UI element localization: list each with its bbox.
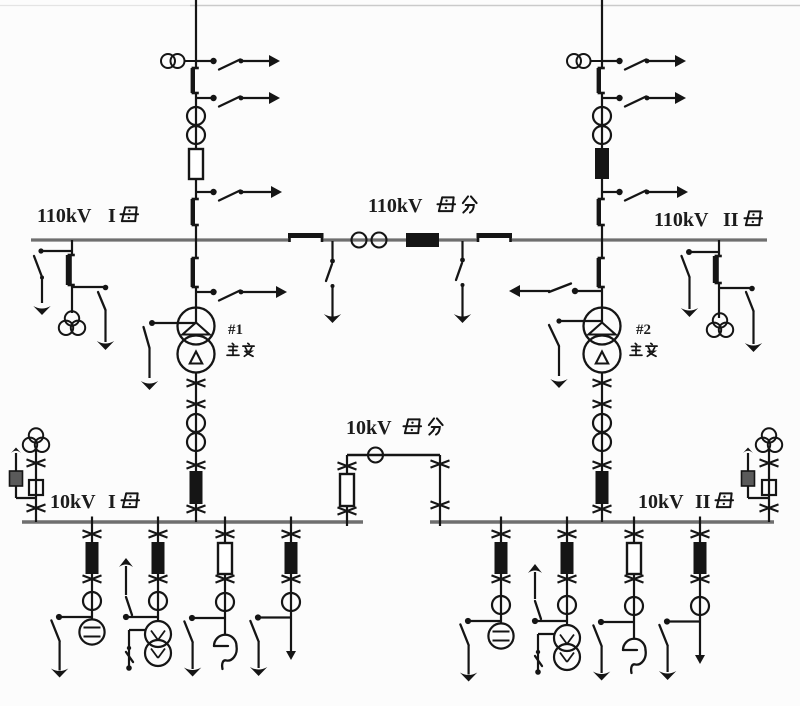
- svg-text:10kV: 10kV: [638, 491, 684, 513]
- svg-text:II: II: [723, 209, 739, 231]
- svg-text:#1: #1: [228, 322, 243, 338]
- svg-text:II: II: [695, 491, 711, 513]
- svg-text:110kV: 110kV: [654, 209, 709, 231]
- svg-text:110kV: 110kV: [37, 205, 92, 227]
- svg-text:10kV: 10kV: [50, 491, 96, 513]
- svg-text:110kV: 110kV: [368, 195, 423, 217]
- svg-text:I: I: [108, 491, 116, 513]
- svg-text:10kV: 10kV: [346, 417, 392, 439]
- svg-text:#2: #2: [636, 322, 651, 338]
- svg-text:I: I: [108, 205, 116, 227]
